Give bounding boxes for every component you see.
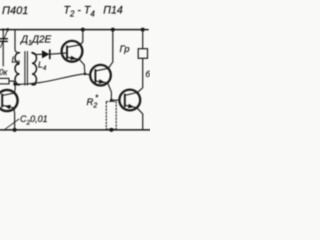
wire C1 lower lead xyxy=(2,41,4,66)
diode D1 xyxy=(42,50,50,58)
wire speaker top lead from rail xyxy=(142,30,144,49)
transistor T1 (clipped at left edge) xyxy=(0,90,18,111)
resistor R2 dashed optional xyxy=(106,102,116,130)
node T3 collector rail junction xyxy=(111,28,115,32)
wire T2 emitter to T3 base node xyxy=(79,59,85,73)
wire from top rail down to L3 xyxy=(15,30,19,53)
svg-text:Гр: Гр xyxy=(120,44,130,55)
inductor L4 transformer secondary winding xyxy=(32,53,37,85)
wire L4 bottom lead xyxy=(32,83,36,86)
svg-text:L4: L4 xyxy=(38,60,47,73)
wire T3 emitter to T4 base node xyxy=(108,83,112,100)
capacitor C1 variable tuning (plates) xyxy=(0,39,7,42)
wire T2 collector to top rail xyxy=(80,30,83,45)
transformer core xyxy=(25,52,28,86)
inductor L3 transformer primary winding xyxy=(15,53,19,85)
leader line from C2 label xyxy=(4,119,20,130)
node T1 emitter bottom rail junction xyxy=(13,128,17,132)
wire T4 base lead xyxy=(111,99,119,101)
svg-text:Т2 - Т4П14: Т2 - Т4П14 xyxy=(64,5,123,19)
wire C1 upper lead xyxy=(2,30,4,39)
node speaker rail junction xyxy=(141,28,145,32)
wire T4 collector to speaker xyxy=(138,58,143,92)
svg-text:0к: 0к xyxy=(0,68,8,77)
wire long link from R1/L3 node to T3 base xyxy=(15,74,91,85)
svg-text:L3: L3 xyxy=(12,55,21,68)
wire T4 emitter to bottom rail xyxy=(137,108,143,130)
svg-text:б: б xyxy=(146,70,151,79)
svg-text:*: * xyxy=(95,94,99,103)
svg-text:Д1Д2Е: Д1Д2Е xyxy=(20,35,52,48)
wire L4 top to diode xyxy=(32,53,42,54)
capacitor C1 variable arrow xyxy=(0,28,8,47)
wire T1 collector to junction xyxy=(13,85,16,93)
wire diode to T2 base xyxy=(50,53,67,54)
wire top supply rail xyxy=(0,29,148,31)
transistor T3 xyxy=(90,65,111,86)
transistor T2 xyxy=(62,41,83,62)
node T3 base junction xyxy=(84,73,87,76)
wire L3 bottom lead xyxy=(15,83,20,86)
wire bottom supply rail xyxy=(0,129,150,131)
node C1 top junction xyxy=(2,28,4,30)
speaker Гр earphone xyxy=(138,49,147,59)
node T2 collector rail junction xyxy=(81,28,85,32)
wire R1 to junction xyxy=(9,81,15,84)
svg-text:П401: П401 xyxy=(2,5,28,17)
wire T3 collector to top rail xyxy=(108,30,113,69)
svg-text:С20,01: С20,01 xyxy=(20,114,48,127)
node R2 bottom rail junction xyxy=(109,128,113,132)
wire T1 emitter to bottom rail xyxy=(13,108,16,130)
node T4 base R2 junction xyxy=(110,99,113,102)
node R1 L3 T1-collector junction xyxy=(13,83,16,86)
transistor T4 xyxy=(119,90,140,111)
resistor R1 (clipped at left edge) xyxy=(0,78,9,84)
